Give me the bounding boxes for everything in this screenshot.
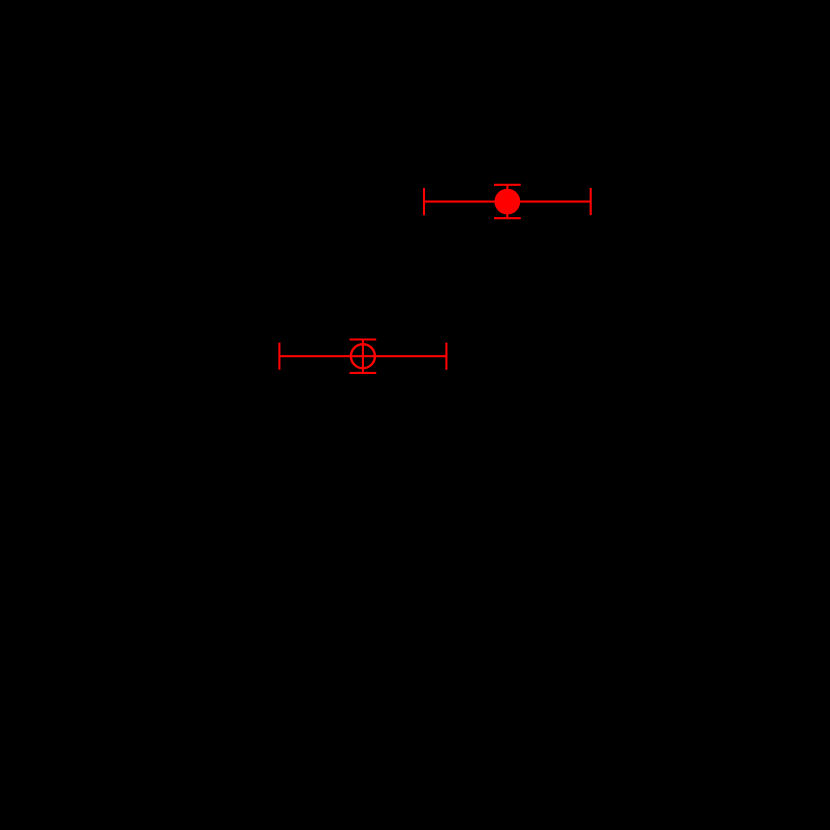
data point 1: right error cap [590,188,592,215]
data point 1: vertical error bar [506,185,508,218]
data point 2: bottom error cap [350,372,377,374]
data point 1: top error cap [494,184,521,186]
data point 2: horizontal error bar [279,355,446,357]
data point 1: bottom error cap [494,217,521,219]
data point 2: left error cap [278,343,280,370]
data point 2: right error cap [445,343,447,370]
data point 2: top error cap [350,338,377,340]
data point 1: filled circle marker [494,189,520,215]
data point 2: open circle marker [351,344,375,368]
data point 1: left error cap [423,188,425,215]
data point 1: horizontal error bar [424,201,591,203]
data point 2: vertical error bar [362,340,364,373]
